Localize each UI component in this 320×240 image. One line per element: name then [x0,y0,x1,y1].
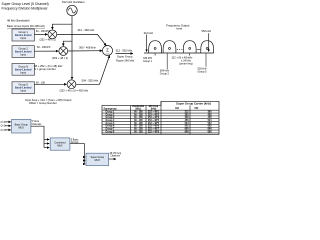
svg-text:360 - 408 kHz: 360 - 408 kHz [79,46,96,50]
svg-text:Group 4: Group 4 [106,119,116,122]
svg-text:60 - 108: 60 - 108 [36,81,45,84]
svg-text:252 + 48*2: 252 + 48*2 [148,113,160,116]
svg-text:48 kHz Bandwidth: 48 kHz Bandwidth [7,18,30,22]
svg-text:Input: Input [20,70,26,74]
svg-text:Channels: Channels [110,155,121,157]
svg-text:5 Basic: 5 Basic [71,139,79,141]
svg-text:48 kHz Grp: 48 kHz Grp [110,152,122,155]
svg-text:252 + 48*1: 252 + 48*1 [148,111,160,114]
svg-text:5 Voice: 5 Voice [32,121,40,123]
svg-text:Channels: Channels [32,124,43,126]
svg-text:60 - 108: 60 - 108 [134,117,143,119]
svg-text:Offset = Group Number: Offset = Group Number [29,101,57,105]
svg-text:Figure 240 kHz: Figure 240 kHz [116,59,135,63]
svg-text:MUX: MUX [57,145,63,148]
svg-text:60 - 108: 60 - 108 [134,120,143,122]
svg-text:Group 1: Group 1 [106,112,116,114]
svg-text:here: here [177,27,183,31]
svg-text:Super Group: Super Group [117,55,133,59]
svg-text:Group 3: Group 3 [106,117,116,119]
svg-text:Group 2: Group 2 [160,73,170,76]
svg-text:252 + 48*8: 252 + 48*8 [148,130,160,133]
svg-text:sum: sum [106,54,110,56]
svg-text:Group 7: Group 7 [106,129,116,131]
svg-text:Group 8: Group 8 [106,131,116,133]
svg-text:252 + 48*4: 252 + 48*4 [148,119,160,122]
svg-text:(252 + 48 x 1): (252 + 48 x 1) [40,37,56,41]
svg-text:Input: Input [20,36,26,40]
svg-text:512 kHz Oscillator: 512 kHz Oscillator [62,0,85,4]
svg-text:Group 5: Group 5 [106,123,116,125]
svg-text:Group 2: Group 2 [106,114,116,116]
svg-text:Input: Input [20,89,26,93]
svg-text:N = group number: N = group number [34,67,56,71]
svg-text:Input: Input [20,53,26,57]
svg-text:(252 + 48 x 2): (252 + 48 x 2) [52,56,68,60]
svg-text:60 - 108: 60 - 108 [134,123,143,125]
svg-text:Super Group Carrier (kHz): Super Group Carrier (kHz) [176,102,211,106]
svg-text:504 - 552 kHz: 504 - 552 kHz [82,78,99,82]
svg-text:Basic Group Inputs (60-108 kHz: Basic Group Inputs (60-108 kHz) [7,24,45,28]
svg-text:252 + 48*3: 252 + 48*3 [148,116,160,119]
svg-text:Group 5: Group 5 [198,71,208,74]
svg-text:MUX: MUX [95,159,101,162]
svg-text:(252 + 48 x 5) = 492 kHz: (252 + 48 x 5) = 492 kHz [60,89,89,93]
svg-text:Σ: Σ [106,48,109,53]
svg-text:Frequency Division Multiplexer: Frequency Division Multiplexer [2,6,49,10]
svg-text:60 - 108: 60 - 108 [134,126,143,128]
svg-text:60 - 108: 60 - 108 [134,112,143,114]
svg-text:60 - 108: 60 - 108 [134,114,143,116]
svg-text:(kHz): (kHz) [151,109,157,111]
svg-text:(center freq): (center freq) [179,63,193,66]
svg-text:(kHz): (kHz) [135,109,141,111]
svg-text:60 - 108: 60 - 108 [134,131,143,133]
svg-text:252 + 48*6: 252 + 48*6 [148,125,160,128]
svg-text:252 + 48*5: 252 + 48*5 [148,122,160,125]
svg-text:312 kHz: 312 kHz [144,31,154,35]
svg-text:60 - 108 kHz: 60 - 108 kHz [37,46,51,49]
svg-text:Group 1: Group 1 [143,60,153,63]
svg-text:Group 6: Group 6 [106,126,116,128]
svg-text:252 + 48*7: 252 + 48*7 [148,128,160,131]
svg-text:312 - 552 kHz: 312 - 552 kHz [116,48,133,52]
svg-text:60 - 108: 60 - 108 [134,129,143,131]
svg-text:312 - 360 kHz: 312 - 360 kHz [78,28,95,32]
svg-text:Supergroup: Supergroup [104,108,118,110]
svg-text:MUX: MUX [19,127,25,130]
svg-text:552 kHz: 552 kHz [202,29,212,33]
